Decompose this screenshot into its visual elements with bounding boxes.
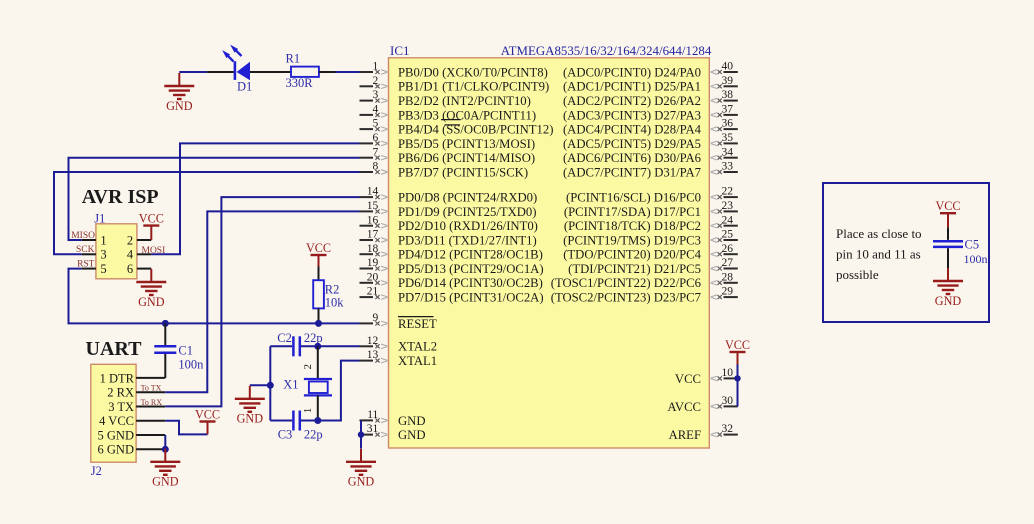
svg-text:(PCINT18/TCK) D18/PC2: (PCINT18/TCK) D18/PC2: [564, 219, 701, 233]
svg-text:PD3/D11 (TXD1/27/INT1): PD3/D11 (TXD1/27/INT1): [398, 233, 537, 247]
svg-text:1 DTR: 1 DTR: [100, 371, 135, 385]
svg-text:2: 2: [302, 364, 314, 370]
svg-text:VCC: VCC: [935, 199, 960, 213]
svg-text:R1: R1: [286, 52, 301, 66]
svg-text:(ADC5/PCINT5) D29/PA5: (ADC5/PCINT5) D29/PA5: [563, 137, 701, 151]
svg-text:PB0/D0 (XCK0/T0/PCINT8): PB0/D0 (XCK0/T0/PCINT8): [398, 65, 548, 79]
svg-text:VCC: VCC: [306, 241, 331, 255]
svg-text:19: 19: [367, 257, 379, 269]
svg-text:(TDO/PCINT20) D20/PC4: (TDO/PCINT20) D20/PC4: [563, 248, 701, 262]
svg-text:PD4/D12 (PCINT28/OC1B): PD4/D12 (PCINT28/OC1B): [398, 248, 543, 262]
svg-text:17: 17: [367, 229, 379, 241]
svg-text:R2: R2: [325, 283, 340, 297]
svg-text:38: 38: [722, 89, 734, 101]
svg-text:34: 34: [722, 146, 734, 158]
svg-text:PB7/D7 (PCINT15/SCK): PB7/D7 (PCINT15/SCK): [398, 165, 528, 179]
svg-text:GND: GND: [152, 475, 179, 489]
svg-text:18: 18: [367, 243, 379, 255]
svg-text:GND: GND: [935, 294, 962, 308]
svg-text:(ADC1/PCINT1) D25/PA1: (ADC1/PCINT1) D25/PA1: [563, 80, 701, 94]
svg-text:20: 20: [367, 271, 379, 283]
svg-text:IC1: IC1: [390, 43, 410, 58]
svg-text:26: 26: [722, 243, 734, 255]
svg-text:C3: C3: [278, 427, 293, 441]
svg-text:22: 22: [722, 186, 734, 198]
svg-text:29: 29: [722, 286, 734, 298]
svg-text:27: 27: [722, 257, 734, 269]
svg-text:23: 23: [722, 200, 734, 212]
svg-text:32: 32: [722, 423, 734, 435]
svg-text:37: 37: [722, 104, 734, 116]
svg-text:(PCINT19/TMS) D19/PC3: (PCINT19/TMS) D19/PC3: [563, 233, 701, 247]
svg-text:GND: GND: [166, 99, 193, 113]
svg-text:8: 8: [373, 161, 379, 173]
svg-text:3: 3: [100, 248, 106, 262]
svg-text:11: 11: [367, 409, 378, 421]
svg-text:VCC: VCC: [139, 211, 164, 225]
svg-text:(TOSC1/PCINT22) D22/PC6: (TOSC1/PCINT22) D22/PC6: [551, 276, 701, 290]
svg-text:28: 28: [722, 271, 734, 283]
svg-text:VCC: VCC: [725, 338, 750, 352]
svg-text:C2: C2: [277, 331, 292, 345]
svg-text:100n: 100n: [178, 358, 204, 372]
svg-text:AVR ISP: AVR ISP: [82, 186, 159, 208]
svg-text:(TDI/PCINT21) D21/PC5: (TDI/PCINT21) D21/PC5: [568, 262, 701, 276]
svg-text:13: 13: [367, 349, 379, 361]
svg-text:PB3/D3 (OC0A/PCINT11): PB3/D3 (OC0A/PCINT11): [398, 108, 536, 122]
svg-text:22p: 22p: [304, 331, 323, 345]
svg-text:24: 24: [722, 214, 734, 226]
svg-text:6: 6: [127, 262, 133, 276]
svg-text:22p: 22p: [304, 427, 323, 441]
svg-text:14: 14: [367, 186, 379, 198]
svg-text:3: 3: [373, 89, 379, 101]
svg-text:4: 4: [127, 248, 134, 262]
svg-text:30: 30: [722, 395, 734, 407]
svg-text:(PCINT17/SDA) D17/PC1: (PCINT17/SDA) D17/PC1: [564, 205, 701, 219]
svg-text:UART: UART: [86, 338, 143, 360]
svg-text:GND: GND: [138, 295, 165, 309]
svg-text:To RX: To RX: [141, 398, 163, 407]
svg-text:(TOSC2/PCINT23) D23/PC7: (TOSC2/PCINT23) D23/PC7: [551, 291, 701, 305]
svg-text:PB2/D2 (INT2/PCINT10): PB2/D2 (INT2/PCINT10): [398, 94, 531, 108]
svg-text:X1: X1: [283, 378, 298, 392]
svg-text:4 VCC: 4 VCC: [99, 414, 134, 428]
svg-text:40: 40: [722, 61, 734, 73]
svg-text:AREF: AREF: [669, 428, 701, 442]
svg-text:XTAL2: XTAL2: [398, 340, 437, 354]
svg-text:31: 31: [367, 423, 379, 435]
svg-text:3 TX: 3 TX: [108, 400, 134, 414]
svg-text:(ADC7/PCINT7) D31/PA7: (ADC7/PCINT7) D31/PA7: [563, 165, 701, 179]
svg-text:Place as close to: Place as close to: [836, 226, 922, 241]
svg-text:PD2/D10 (RXD1/26/INT0): PD2/D10 (RXD1/26/INT0): [398, 219, 538, 233]
svg-text:GND: GND: [348, 475, 375, 489]
svg-text:(ADC2/PCINT2) D26/PA2: (ADC2/PCINT2) D26/PA2: [563, 94, 701, 108]
svg-text:GND: GND: [237, 412, 264, 426]
svg-text:5 GND: 5 GND: [98, 428, 134, 442]
svg-text:XTAL1: XTAL1: [398, 354, 437, 368]
svg-text:D1: D1: [237, 79, 252, 93]
svg-text:(ADC3/PCINT3) D27/PA3: (ADC3/PCINT3) D27/PA3: [563, 108, 701, 122]
svg-text:PD1/D9 (PCINT25/TXD0): PD1/D9 (PCINT25/TXD0): [398, 205, 537, 219]
svg-text:AVCC: AVCC: [667, 400, 701, 414]
svg-text:VCC: VCC: [675, 372, 701, 386]
svg-text:PD6/D14 (PCINT30/OC2B): PD6/D14 (PCINT30/OC2B): [398, 276, 543, 290]
svg-text:C1: C1: [178, 343, 193, 357]
svg-text:PB5/D5 (PCINT13/MOSI): PB5/D5 (PCINT13/MOSI): [398, 137, 535, 151]
svg-text:C5: C5: [965, 238, 980, 252]
svg-text:To TX: To TX: [141, 384, 162, 393]
svg-text:(PCINT16/SCL) D16/PC0: (PCINT16/SCL) D16/PC0: [566, 191, 701, 205]
svg-text:6: 6: [373, 132, 379, 144]
svg-text:2 RX: 2 RX: [107, 386, 134, 400]
svg-text:VCC: VCC: [195, 407, 220, 421]
svg-text:PD5/D13 (PCINT29/OC1A): PD5/D13 (PCINT29/OC1A): [398, 262, 544, 276]
svg-text:10k: 10k: [325, 296, 345, 310]
svg-text:(ADC0/PCINT0) D24/PA0: (ADC0/PCINT0) D24/PA0: [563, 65, 701, 79]
svg-text:10: 10: [722, 367, 734, 379]
svg-text:PD7/D15 (PCINT31/OC2A): PD7/D15 (PCINT31/OC2A): [398, 291, 544, 305]
svg-text:pin 10 and 11 as: pin 10 and 11 as: [836, 247, 921, 262]
svg-text:33: 33: [722, 161, 734, 173]
svg-text:J2: J2: [91, 464, 102, 478]
svg-text:100n: 100n: [964, 252, 988, 266]
svg-text:6 GND: 6 GND: [98, 443, 134, 457]
svg-text:36: 36: [722, 118, 734, 130]
svg-text:1: 1: [373, 61, 379, 73]
svg-text:1: 1: [100, 233, 106, 247]
svg-text:PB4/D4 (SS/OC0B/PCINT12): PB4/D4 (SS/OC0B/PCINT12): [398, 123, 553, 137]
svg-text:39: 39: [722, 75, 734, 87]
svg-text:5: 5: [100, 262, 106, 276]
svg-text:330R: 330R: [286, 76, 314, 90]
svg-text:21: 21: [367, 286, 379, 298]
svg-text:RESET: RESET: [398, 317, 437, 331]
svg-text:12: 12: [367, 335, 379, 347]
svg-text:9: 9: [373, 312, 379, 324]
svg-text:7: 7: [373, 146, 379, 158]
svg-text:GND: GND: [398, 414, 426, 428]
svg-text:5: 5: [373, 118, 379, 130]
svg-text:GND: GND: [398, 428, 426, 442]
svg-text:1: 1: [302, 408, 314, 414]
svg-text:PD0/D8 (PCINT24/RXD0): PD0/D8 (PCINT24/RXD0): [398, 191, 537, 205]
svg-text:16: 16: [367, 214, 379, 226]
svg-text:35: 35: [722, 132, 734, 144]
svg-text:2: 2: [373, 75, 379, 87]
svg-text:4: 4: [373, 104, 379, 116]
svg-text:(ADC6/PCINT6) D30/PA6: (ADC6/PCINT6) D30/PA6: [563, 151, 701, 165]
svg-text:15: 15: [367, 200, 379, 212]
svg-text:possible: possible: [836, 267, 879, 282]
svg-text:2: 2: [127, 233, 133, 247]
svg-text:PB6/D6 (PCINT14/MISO): PB6/D6 (PCINT14/MISO): [398, 151, 535, 165]
svg-text:PB1/D1 (T1/CLKO/PCINT9): PB1/D1 (T1/CLKO/PCINT9): [398, 80, 549, 94]
svg-text:25: 25: [722, 229, 734, 241]
svg-text:(ADC4/PCINT4) D28/PA4: (ADC4/PCINT4) D28/PA4: [563, 123, 702, 137]
svg-text:ATMEGA8535/16/32/164/324/644/1: ATMEGA8535/16/32/164/324/644/1284: [501, 44, 712, 58]
